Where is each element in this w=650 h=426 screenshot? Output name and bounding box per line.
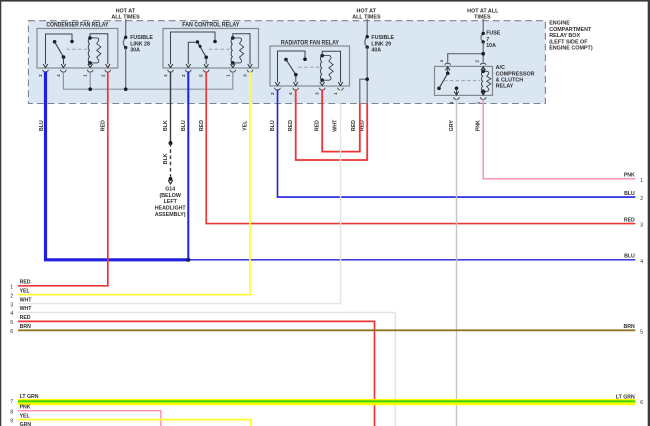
- engine compartment relay box (dashed): [28, 21, 545, 104]
- svg-text:4: 4: [640, 259, 643, 265]
- svg-text:HOT AT: HOT AT: [356, 9, 376, 15]
- engine compartment relay box label: [549, 21, 593, 52]
- svg-text:RED: RED: [351, 120, 357, 131]
- svg-text:LINK 28: LINK 28: [130, 41, 150, 47]
- svg-text:BLK: BLK: [163, 153, 169, 164]
- radiator pin 3: [315, 82, 325, 95]
- svg-text:1: 1: [10, 285, 13, 291]
- svg-text:BLU: BLU: [181, 120, 187, 131]
- svg-text:YEL: YEL: [20, 288, 31, 294]
- svg-text:LINK 29: LINK 29: [371, 41, 391, 47]
- svg-text:ASSEMBLY): ASSEMBLY): [155, 212, 186, 218]
- svg-text:8: 8: [10, 409, 13, 415]
- svg-text:3: 3: [10, 302, 13, 308]
- wire RED fan control pin 5 to right edge (circuit 3): [199, 71, 635, 223]
- wire PNK a/c pin 1 to right edge (circuit 1): [476, 99, 636, 179]
- svg-text:G14: G14: [165, 187, 175, 193]
- svg-text:FUSE: FUSE: [486, 31, 501, 37]
- page border left: [0, 0, 1, 426]
- svg-text:A/C: A/C: [496, 65, 505, 71]
- left margin circuit 4 WHT: [10, 306, 32, 317]
- svg-text:PNK: PNK: [476, 120, 482, 131]
- svg-text:BLU: BLU: [39, 120, 45, 131]
- left margin circuit 10 GRN (cut off): [20, 422, 32, 426]
- svg-text:COMPARTMENT: COMPARTMENT: [549, 27, 592, 33]
- radiator pin 1: [333, 82, 343, 95]
- fan control pin 3: [243, 64, 253, 77]
- svg-text:BLU: BLU: [270, 120, 276, 131]
- svg-text:LEFT: LEFT: [164, 199, 178, 205]
- wire YEL left margin 9 to bottom edge: [18, 420, 251, 426]
- svg-text:WHT: WHT: [20, 306, 33, 312]
- right margin circuit 4 BLU: [624, 254, 643, 265]
- svg-text:RED: RED: [20, 280, 31, 286]
- condenser pin 1: [83, 64, 93, 77]
- relay: RADIATOR FAN RELAY: [270, 40, 350, 86]
- svg-text:COMPRESSOR: COMPRESSOR: [496, 71, 535, 77]
- radiator relay switch: [278, 51, 307, 82]
- svg-text:2: 2: [640, 196, 643, 202]
- relay: A/C COMPRESSOR &amp; CLUTCH RELAY: [435, 65, 535, 95]
- wire WHT radiator pin 1 to left margin 3: [18, 89, 341, 303]
- fusible link 28 30A: [123, 19, 153, 89]
- svg-text:FUSIBLE: FUSIBLE: [130, 35, 153, 41]
- left margin circuit 6 BRN: [10, 324, 31, 335]
- svg-text:5: 5: [640, 329, 643, 335]
- svg-text:PNK: PNK: [20, 404, 31, 410]
- svg-text:BLU: BLU: [624, 191, 635, 197]
- a/c pin 4 (top): [439, 59, 451, 70]
- svg-text:6: 6: [10, 329, 13, 335]
- fuse 7 10A: [481, 19, 501, 54]
- wire RED condenser pin 2 to left margin 1: [18, 71, 108, 285]
- fan control pin 5: [199, 64, 209, 77]
- label HOT AT ALL TIMES (fusible link 28): [111, 9, 140, 21]
- svg-text:GRY: GRY: [449, 120, 455, 132]
- svg-text:9: 9: [10, 418, 13, 424]
- condenser pin 4: [56, 64, 66, 77]
- right margin circuit 2 BLU: [624, 191, 643, 202]
- a/c pin 2 (top): [474, 59, 486, 70]
- condenser pin 3: [38, 64, 48, 77]
- wire RED radiator pin 3 loop to fusible link 29 branch: [314, 89, 359, 151]
- wire BLK fan control pin 4 to ground G14: [163, 71, 172, 176]
- svg-text:RADIATOR FAN RELAY: RADIATOR FAN RELAY: [281, 40, 339, 46]
- svg-text:RELAY BOX: RELAY BOX: [549, 33, 580, 39]
- left margin circuit 3 WHT: [10, 297, 32, 308]
- relay: CONDENSER FAN RELAY: [37, 23, 118, 68]
- svg-text:7: 7: [486, 37, 489, 43]
- wire RED radiator pin 4 loop to fusible link 29: [288, 89, 367, 160]
- svg-text:7: 7: [10, 399, 13, 405]
- wire YEL fan control pin 3 to left margin 2: [18, 71, 250, 294]
- left margin circuit 8 PNK: [10, 404, 31, 415]
- wire BLU condenser pin 3 to right edge (circuit 4): [39, 71, 635, 261]
- wire PNK left margin 8 to bottom edge: [18, 411, 161, 426]
- ground G14: [155, 177, 187, 218]
- wire RED left margin 5 to bottom edge: [18, 321, 375, 426]
- svg-text:RED: RED: [288, 120, 294, 131]
- svg-text:ENGINE COMPT): ENGINE COMPT): [549, 46, 593, 52]
- svg-text:6: 6: [640, 400, 643, 406]
- svg-text:LT GRN: LT GRN: [20, 394, 39, 400]
- wire relay feed bus y89: [63, 73, 232, 91]
- page border top: [0, 0, 650, 2]
- svg-text:ENGINE: ENGINE: [549, 21, 570, 27]
- fan control pin 2: [181, 64, 191, 77]
- fusible link 29 40A: [365, 19, 395, 104]
- fan control pin 4: [163, 64, 173, 77]
- fan control relay switch: [171, 32, 217, 64]
- a/c relay coil: [481, 67, 490, 95]
- a/c relay coupling (dashed): [444, 80, 480, 82]
- a/c pin 1 (bottom): [476, 91, 486, 104]
- radiator pin 2: [270, 82, 280, 95]
- svg-text:ALL TIMES: ALL TIMES: [352, 15, 381, 21]
- svg-text:CONDENSER FAN RELAY: CONDENSER FAN RELAY: [46, 23, 108, 29]
- svg-text:YEL: YEL: [20, 413, 31, 419]
- wire BRN left margin 6 to right edge (circuit 5): [18, 329, 635, 331]
- svg-text:GRN: GRN: [20, 422, 32, 426]
- svg-text:HEADLIGHT: HEADLIGHT: [155, 206, 187, 212]
- wire WHT left margin 4 to bottom edge: [18, 313, 395, 426]
- svg-text:HOT AT ALL: HOT AT ALL: [467, 9, 499, 15]
- right margin circuit 1 PNK: [624, 173, 643, 184]
- fan control relay coupling (dashed): [209, 48, 230, 50]
- relay: FAN CONTROL RELAY: [163, 23, 259, 68]
- svg-text:RED: RED: [624, 217, 635, 223]
- svg-text:HOT AT: HOT AT: [116, 9, 136, 15]
- svg-text:(BELOW: (BELOW: [159, 193, 180, 199]
- right margin circuit 6 LT GRN: [616, 395, 643, 406]
- wire fusible link 29 branch to x360: [360, 77, 369, 104]
- svg-text:FUSIBLE: FUSIBLE: [371, 35, 394, 41]
- svg-text:10A: 10A: [486, 43, 496, 49]
- wire BLU radiator pin 2 to right edge (circuit 2): [270, 89, 635, 197]
- svg-text:TIMES: TIMES: [474, 15, 491, 21]
- svg-text:30A: 30A: [130, 48, 140, 54]
- svg-text:BRN: BRN: [20, 324, 31, 330]
- svg-text:LT GRN: LT GRN: [616, 395, 635, 401]
- svg-text:YEL: YEL: [243, 120, 249, 131]
- svg-text:2: 2: [10, 293, 13, 299]
- svg-text:FAN CONTROL RELAY: FAN CONTROL RELAY: [182, 23, 239, 29]
- label HOT AT ALL TIMES (fusible link 29): [352, 9, 381, 21]
- wire fuse 7 feed to relay pins 4 and 2: [448, 52, 485, 63]
- wire GRY a/c pin 3 to bottom edge: [449, 99, 457, 426]
- svg-text:RED: RED: [101, 120, 107, 131]
- svg-text:WHT: WHT: [20, 297, 33, 303]
- radiator pin 4: [288, 82, 298, 95]
- radiator relay coupling (dashed): [299, 66, 321, 68]
- svg-text:BRN: BRN: [624, 324, 635, 330]
- condenser relay coupling (dashed): [67, 48, 89, 50]
- svg-text:5: 5: [10, 320, 13, 326]
- svg-text:1: 1: [640, 178, 643, 184]
- condenser pin 2: [100, 64, 110, 77]
- wire BLU fan control pin 2 to junction: [181, 71, 188, 259]
- left margin circuit 7 LT GRN: [10, 394, 39, 405]
- svg-text:(LEFT SIDE OF: (LEFT SIDE OF: [549, 39, 588, 45]
- svg-text:3: 3: [640, 223, 643, 229]
- left margin circuit 5 RED: [10, 315, 31, 326]
- condenser relay coil: [88, 34, 108, 65]
- a/c pin 3 (bottom): [449, 91, 459, 104]
- svg-text:WHT: WHT: [333, 119, 339, 132]
- right margin circuit 5 BRN: [624, 324, 644, 335]
- label HOT AT ALL TIMES (fuse 7): [467, 9, 499, 21]
- radiator relay coil: [320, 51, 340, 82]
- svg-text:4: 4: [10, 311, 13, 317]
- svg-text:& CLUTCH: & CLUTCH: [496, 78, 524, 84]
- svg-text:RED: RED: [314, 120, 320, 131]
- wire LT GRN left margin 7 to right edge (circuit 6): [18, 399, 635, 405]
- svg-text:BLU: BLU: [624, 254, 635, 260]
- fan control relay coil: [231, 34, 250, 65]
- svg-text:PNK: PNK: [624, 173, 635, 179]
- condenser relay switch: [46, 34, 74, 64]
- svg-text:RELAY: RELAY: [496, 84, 514, 90]
- left margin circuit 9 YEL: [10, 413, 30, 424]
- left margin circuit 1 RED: [10, 280, 31, 291]
- svg-text:40A: 40A: [371, 48, 381, 54]
- right margin circuit 3 RED: [624, 217, 643, 228]
- left margin circuit 2 YEL: [10, 288, 30, 299]
- fan control pin 1: [225, 64, 235, 77]
- svg-text:RED: RED: [199, 120, 205, 131]
- svg-text:BLK: BLK: [163, 120, 169, 131]
- a/c relay switch: [437, 67, 458, 95]
- svg-text:RED: RED: [20, 315, 31, 321]
- page border right: [648, 0, 650, 426]
